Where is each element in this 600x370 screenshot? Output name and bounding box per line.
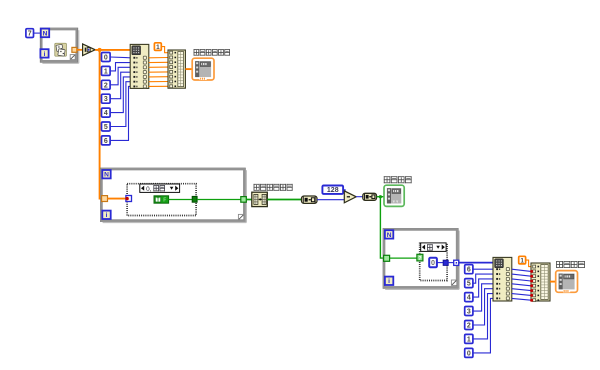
coercion dot build2 row 3	[530, 275, 533, 278]
wire constant 5 to index input	[110, 82, 131, 127]
wire index2 out 0 to build2	[512, 269, 531, 271]
for-loop 3 frame	[383, 228, 458, 288]
loop 2 input tunnel	[102, 196, 108, 202]
svg-text:i: i	[106, 212, 108, 219]
constant 0 (bottom group)	[465, 348, 473, 357]
wire index2 out 1 to build2	[512, 274, 531, 276]
label: negative binary number	[194, 49, 200, 55]
case 3 selector label	[421, 243, 446, 252]
svg-text:3: 3	[467, 309, 471, 316]
loop 2 count terminal N	[102, 170, 110, 178]
svg-text:3: 3	[104, 96, 108, 103]
indicator icon: negative binary number	[192, 58, 214, 80]
svg-text:0: 0	[431, 258, 435, 267]
constant 5	[102, 122, 111, 131]
wire tunnel to case selector	[108, 198, 127, 200]
wire constant 4 to index2	[473, 279, 494, 297]
wire index2 out 5 to build2	[512, 294, 531, 296]
wire build2 to indicator 2	[550, 281, 556, 283]
svg-text:7: 7	[28, 31, 32, 38]
wire constant 2 to index2	[473, 289, 494, 325]
loop 1 iteration terminal i	[40, 49, 48, 57]
wire constant 1 to build1	[161, 47, 168, 53]
constant 1 (sign bit 2)	[519, 256, 526, 264]
coercion dot build2 row 2	[530, 270, 533, 273]
wire case to loop tunnel	[197, 199, 241, 201]
boolean array to number node	[302, 196, 318, 203]
wire constant 1 to index2	[473, 294, 494, 339]
conversion node (to integer)	[83, 44, 96, 56]
wire conversion to index-array 1	[95, 49, 130, 51]
wire index1 out 4 to build1	[149, 76, 168, 78]
constant 1 (bottom group)	[465, 334, 473, 343]
constant 3 (bottom group)	[465, 307, 473, 316]
wire constant 3 to index input	[110, 72, 131, 99]
svg-text:i: i	[44, 51, 46, 58]
coercion dot case 2	[125, 197, 128, 200]
svg-text:6: 6	[104, 138, 108, 145]
coercion dot build2 row 6	[530, 289, 533, 292]
case 2 selector label	[140, 184, 180, 192]
label: boolean array	[384, 176, 391, 183]
wire constant 0 to index input	[110, 56, 131, 59]
wire index2 out 6 to build2	[512, 298, 531, 300]
svg-text:i: i	[388, 278, 390, 285]
svg-text:128: 128	[327, 187, 339, 194]
indicator icon: two's complement display	[556, 271, 578, 293]
loop 3 resize corner	[451, 280, 456, 285]
wire constant 1 to build2	[526, 260, 531, 267]
wire constant 0 to index2	[473, 298, 494, 352]
case 3 output tunnel	[443, 260, 448, 265]
wire constant 5 to index2	[473, 274, 494, 283]
svg-text:1: 1	[520, 257, 524, 264]
case 2 selector terminal	[126, 196, 132, 202]
case structure 2 frame	[126, 183, 197, 217]
index-array node 1	[130, 44, 149, 88]
wire index1 out 3 to build1	[149, 71, 168, 73]
svg-text:1: 1	[467, 336, 471, 343]
svg-text:1: 1	[104, 68, 108, 75]
wire junction dot	[98, 48, 102, 52]
wire index1 out 0 to build1	[149, 57, 168, 59]
coercion dot build2 row 4	[530, 280, 533, 283]
wire constant 1 to index input	[110, 63, 131, 71]
svg-text:T: T	[156, 197, 159, 203]
wire 7 to N	[34, 32, 42, 34]
wire loop2 to reverse node	[246, 199, 252, 201]
coercion dot build2 row 5	[530, 284, 533, 287]
constant 2	[102, 80, 111, 89]
constant 4 (bottom group)	[465, 293, 473, 302]
wire 128 to subtract	[343, 190, 346, 193]
loop 2 resize corner	[238, 214, 243, 219]
loop 3 output tunnel	[454, 260, 459, 265]
label: two's complement display	[556, 261, 563, 268]
random number dice icon	[55, 43, 67, 56]
wire branch down to loop 3	[380, 197, 383, 258]
wire case3 to loop tunnel	[448, 262, 454, 264]
wire constant 6 to index input	[110, 86, 131, 140]
svg-text:6: 6	[467, 267, 471, 274]
svg-text:2: 2	[104, 82, 108, 89]
svg-text:0: 0	[104, 55, 108, 62]
constant 0 in case 3	[429, 258, 437, 268]
wire constant 4 to index input	[110, 77, 131, 113]
wire 0 to case tunnel	[437, 262, 443, 264]
constant 1 (sign bit)	[154, 43, 161, 51]
for-loop 1 frame	[40, 28, 78, 62]
constant 1	[102, 66, 111, 75]
build-array node 1	[168, 50, 185, 88]
loop 2 output tunnel	[241, 197, 247, 203]
wire constant 2 to index input	[110, 67, 131, 84]
wire constant 3 to index2	[473, 284, 494, 311]
svg-text:N: N	[104, 172, 109, 179]
constant 6	[102, 136, 111, 145]
svg-text:5: 5	[104, 124, 108, 131]
wire to boolean indicator	[377, 196, 385, 198]
wire branch down to loop 2	[100, 50, 103, 199]
build-array node 2	[531, 263, 550, 301]
loop 1 count terminal N	[41, 29, 49, 38]
coercion dot build2 row 8	[530, 299, 533, 302]
wire index1 out 2 to build1	[149, 66, 168, 68]
constant 7 (loop count)	[26, 29, 34, 38]
boolean constant T	[154, 196, 169, 204]
wire index2 out 4 to build2	[512, 289, 531, 291]
coercion dot build2 row 7	[530, 294, 533, 297]
wire tunnel to case 3 selector	[390, 257, 417, 259]
svg-text:?: ?	[418, 256, 421, 262]
wire loop3 to index-array 2	[459, 262, 494, 264]
svg-text:0,: 0,	[146, 186, 152, 193]
label: reverse 1D array	[254, 184, 260, 191]
for-loop 2 frame	[100, 168, 245, 222]
svg-text:N: N	[43, 30, 48, 37]
wire constant 6 to index2	[473, 268, 494, 270]
wire index2 out 2 to build2	[512, 279, 531, 281]
indicator icon: boolean array	[384, 185, 404, 206]
wire build1 to indicator	[185, 68, 192, 70]
svg-text:5: 5	[467, 281, 471, 288]
wire reverse to bool-to-num	[267, 199, 301, 201]
wire bool-to-num to subtract	[317, 199, 344, 201]
wire TF to case tunnel	[169, 199, 193, 201]
loop 3 count terminal N	[385, 230, 393, 238]
loop 1 output tunnel	[72, 47, 77, 52]
case 2 output tunnel	[192, 196, 197, 202]
svg-text:0: 0	[467, 350, 471, 357]
wire tunnel to conversion	[77, 49, 83, 51]
number to boolean array node	[363, 193, 377, 200]
svg-text:4: 4	[467, 295, 471, 302]
wire index2 out 3 to build2	[512, 284, 531, 286]
wire subtract to num-to-bool	[356, 196, 363, 198]
constant 5 (bottom group)	[465, 279, 473, 288]
loop 2 iteration terminal i	[102, 211, 110, 219]
svg-text:N: N	[387, 232, 392, 239]
loop 1 resize corner	[70, 55, 75, 60]
wire index1 out 5 to build1	[149, 81, 168, 83]
constant 3	[102, 94, 111, 103]
index-array node 2	[493, 257, 512, 301]
wire index1 out 6 to build1	[149, 85, 168, 87]
loop 3 input tunnel	[384, 255, 390, 261]
svg-text:4: 4	[104, 110, 108, 117]
constant 6 (bottom group)	[465, 265, 473, 274]
constant 0	[102, 53, 111, 62]
constant 2 (bottom group)	[465, 321, 473, 330]
wire junction dot green	[379, 195, 382, 198]
svg-text:2: 2	[467, 323, 471, 330]
case structure 3 frame	[419, 242, 449, 281]
subtract node	[344, 191, 356, 203]
svg-text:1: 1	[156, 44, 160, 51]
constant 4	[102, 108, 111, 117]
loop 3 iteration terminal i	[385, 277, 393, 285]
reverse 1D array node	[252, 192, 267, 206]
case 3 selector terminal	[417, 254, 423, 262]
svg-text:F: F	[163, 197, 166, 203]
wire index1 out 1 to build1	[149, 61, 168, 63]
constant 128	[322, 186, 343, 194]
